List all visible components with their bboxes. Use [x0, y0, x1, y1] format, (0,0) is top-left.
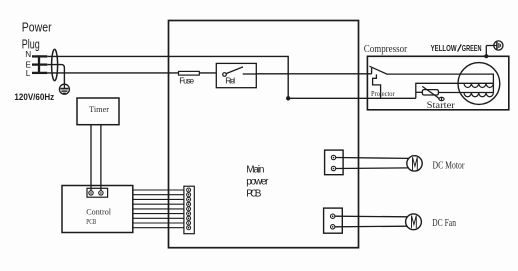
svg-text:YELLOW: YELLOW [431, 43, 457, 53]
svg-text:N: N [25, 50, 31, 59]
svg-text:Compressor: Compressor [364, 44, 408, 55]
svg-text:DC Motor: DC Motor [433, 159, 465, 171]
svg-text:Starter: Starter [427, 101, 456, 111]
svg-text:Timer: Timer [89, 104, 109, 114]
svg-text:PCB: PCB [86, 217, 96, 226]
svg-text:PCB: PCB [246, 189, 262, 200]
svg-text:Control: Control [86, 207, 111, 217]
svg-text:Main: Main [246, 164, 264, 175]
svg-text:120V/60Hz: 120V/60Hz [14, 92, 54, 102]
svg-text:L: L [26, 69, 31, 78]
svg-text:Power: Power [22, 20, 52, 34]
svg-text:Protector: Protector [371, 90, 395, 98]
svg-text:GREEN: GREEN [462, 43, 482, 53]
svg-text:Rel: Rel [225, 76, 235, 86]
svg-text:power: power [246, 177, 269, 188]
svg-text:DC Fan: DC Fan [432, 217, 456, 229]
svg-text:Fuse: Fuse [179, 76, 194, 86]
